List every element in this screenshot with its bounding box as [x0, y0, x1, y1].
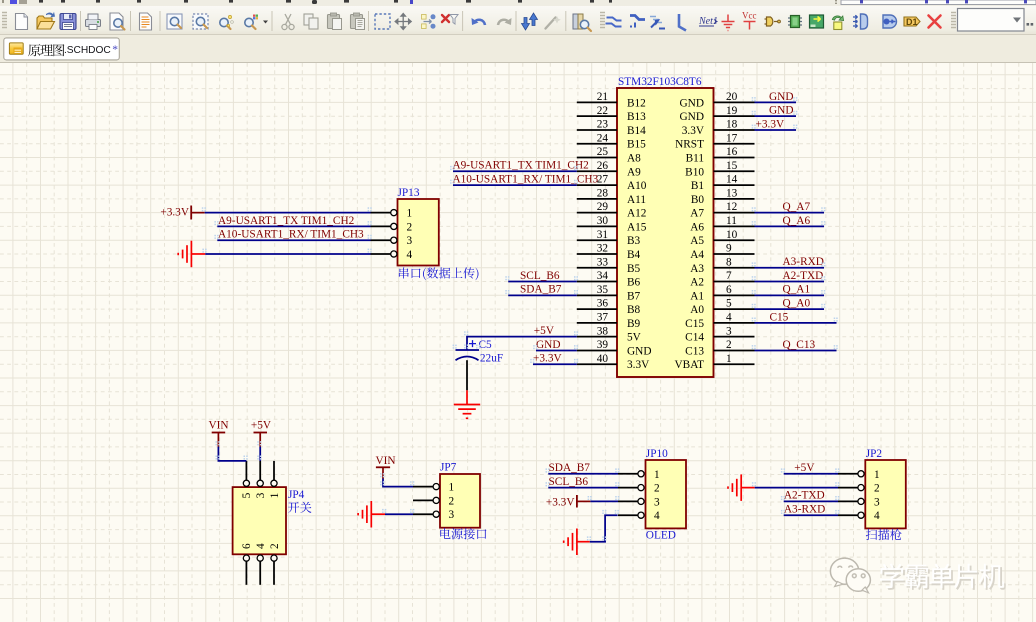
svg-text:22uF: 22uF — [480, 352, 503, 364]
U1 pin 21 stub — [577, 101, 617, 103]
svg-text:A2-TXD: A2-TXD — [783, 270, 824, 282]
svg-text:3.3V: 3.3V — [682, 125, 705, 137]
wire net Q_C13 — [755, 349, 837, 351]
svg-text:13: 13 — [726, 187, 738, 199]
JP4 caption 开关 — [288, 502, 312, 513]
gnd tool — [722, 15, 735, 31]
ground at JP2 pin2 — [728, 474, 741, 501]
svg-text:A9-USART1_TX TIM1_CH2: A9-USART1_TX TIM1_CH2 — [453, 160, 590, 172]
svg-text:5: 5 — [726, 298, 732, 310]
JP10 pin 4 stub — [618, 514, 638, 516]
zoom sparkle — [220, 15, 234, 29]
svg-text:JP2: JP2 — [866, 448, 883, 460]
svg-text:11: 11 — [726, 215, 737, 227]
ground below C5 — [454, 405, 480, 419]
svg-text:A11: A11 — [627, 194, 646, 206]
JP2 caption 扫描枪 — [866, 529, 902, 540]
power port VIN at JP7 — [376, 455, 396, 478]
svg-text:VIN: VIN — [376, 455, 396, 467]
JP7 pin 1 stub — [413, 486, 433, 488]
svg-text:+5V: +5V — [794, 462, 815, 474]
svg-text:31: 31 — [597, 229, 608, 241]
wire JP10 pin3 — [590, 500, 618, 502]
wire net +3.3V pin40 — [533, 363, 577, 365]
svg-text:B11: B11 — [686, 153, 704, 165]
JP13 pin 3 circle — [391, 237, 397, 243]
svg-text:B6: B6 — [627, 277, 641, 289]
svg-text:4: 4 — [874, 510, 880, 522]
JP4 pin 2 circle — [271, 555, 277, 561]
JP13 pin 3 stub — [371, 239, 391, 241]
JP2 pin 4 stub — [838, 514, 858, 516]
svg-text:1: 1 — [269, 493, 281, 499]
svg-text:+3.3V: +3.3V — [756, 118, 785, 130]
JP7 caption 电源接口 — [440, 528, 486, 539]
svg-text:20: 20 — [726, 91, 738, 103]
JP4 pin 1 circle — [271, 480, 277, 486]
svg-text:JP13: JP13 — [398, 187, 420, 199]
svg-text:A3-RXD: A3-RXD — [784, 503, 825, 515]
U1 pin 7 stub — [714, 281, 755, 283]
JP7 pin 2 circle — [433, 497, 439, 503]
MCU U1 STM32F103C8T6 — [617, 76, 714, 377]
power port +3.3V at JP13 — [160, 206, 204, 220]
wire JP13 pin4 — [205, 253, 370, 255]
JP7 pin 1 circle — [433, 484, 439, 490]
svg-text:Q_A6: Q_A6 — [783, 215, 811, 227]
svg-text:16: 16 — [726, 146, 738, 158]
svg-text:D1: D1 — [906, 17, 918, 27]
U1 pin 28 stub — [577, 198, 617, 200]
wire JP13 pin2 — [217, 225, 370, 227]
svg-text:4: 4 — [726, 311, 732, 323]
JP4 pin 3 circle — [257, 480, 263, 486]
U1 pin 26 stub — [577, 170, 617, 172]
svg-text:37: 37 — [597, 311, 609, 323]
JP13 pin 1 circle — [391, 210, 397, 216]
svg-text:3: 3 — [726, 325, 732, 337]
svg-text:A3: A3 — [690, 263, 704, 275]
U1 pin 35 stub — [577, 294, 617, 296]
JP4 pin 6 stub bottom — [245, 561, 247, 585]
svg-text:GND: GND — [680, 97, 704, 109]
U1 pin 5 stub — [714, 308, 755, 310]
zoom document — [167, 14, 182, 29]
JP13 pin 1 stub — [371, 212, 391, 214]
connector JP4 body — [233, 487, 286, 554]
svg-text:3: 3 — [874, 496, 880, 508]
bus entry — [650, 17, 665, 29]
U1 pin 14 stub — [714, 184, 755, 186]
svg-text:3: 3 — [654, 496, 660, 508]
U1 pin 15 stub — [714, 170, 755, 172]
wire net GND — [755, 101, 797, 103]
svg-text:2: 2 — [874, 483, 880, 495]
svg-text:A12: A12 — [627, 208, 647, 220]
svg-text:Q_A7: Q_A7 — [783, 201, 811, 213]
U1 pin 40 stub — [577, 363, 617, 365]
JP4 pin 2 stub bottom — [273, 561, 275, 585]
wire JP2 pin3 — [784, 500, 838, 502]
U1 pin 4 stub — [714, 322, 755, 324]
svg-text:B12: B12 — [627, 97, 646, 109]
reuse recycle — [832, 16, 843, 30]
svg-text:C15: C15 — [685, 318, 704, 330]
svg-text:26: 26 — [597, 160, 609, 172]
and gate part — [765, 17, 781, 26]
wire JP2 pin4 — [784, 514, 838, 516]
svg-text:21: 21 — [597, 91, 608, 103]
svg-text:B13: B13 — [627, 111, 646, 123]
svg-text:Vcc: Vcc — [742, 11, 757, 21]
wire net Q_A7 — [755, 212, 825, 214]
JP13 pin 2 stub — [371, 225, 391, 227]
svg-text:+3.3V: +3.3V — [160, 207, 189, 219]
power port +5V at JP4 — [251, 420, 272, 447]
wire VIN to JP7 pin1 — [383, 479, 413, 487]
U1 pin 6 stub — [714, 294, 755, 296]
svg-text:2: 2 — [407, 221, 413, 233]
svg-text:3: 3 — [449, 509, 455, 521]
svg-text:A10: A10 — [627, 180, 647, 192]
move cross — [395, 14, 411, 30]
connector JP10 body — [646, 460, 687, 528]
JP10 pin 3 stub — [618, 500, 638, 502]
svg-text:39: 39 — [597, 339, 609, 351]
port tool — [883, 15, 897, 28]
svg-text:8: 8 — [726, 256, 732, 268]
open folder — [37, 12, 55, 29]
svg-text:34: 34 — [597, 270, 609, 282]
zoom pixels — [245, 15, 258, 30]
svg-text:A4: A4 — [690, 249, 704, 261]
svg-text:3.3V: 3.3V — [627, 359, 650, 371]
U1 pin 30 stub — [577, 225, 617, 227]
svg-text:*: * — [112, 44, 118, 56]
svg-text:9: 9 — [726, 243, 732, 255]
U1 pin 22 stub — [577, 115, 617, 117]
svg-text:Net1: Net1 — [698, 16, 718, 27]
U1 pin 25 stub — [577, 157, 617, 159]
wire net Q_A1 — [755, 294, 825, 296]
svg-text:SCL_B6: SCL_B6 — [549, 476, 589, 488]
svg-text:Q_A1: Q_A1 — [783, 284, 811, 296]
svg-text:4: 4 — [654, 510, 660, 522]
JP13 pin 2 circle — [391, 223, 397, 229]
svg-text:C14: C14 — [685, 332, 704, 344]
U1 pin 12 stub — [714, 212, 755, 214]
JP2 pin 3 stub — [838, 500, 858, 502]
svg-text:A5: A5 — [690, 235, 704, 247]
U1 pin 20 stub — [714, 101, 755, 103]
JP7 pin 2 stub — [413, 499, 433, 501]
svg-text:4: 4 — [255, 543, 267, 549]
power port VIN at JP4 — [209, 420, 229, 447]
JP4 pin 1 stub top — [273, 461, 275, 480]
wire JP13 pin3 — [217, 239, 370, 241]
undo — [472, 18, 486, 25]
JP4 pin 5 stub top — [245, 461, 247, 480]
svg-text:GND: GND — [769, 91, 793, 103]
svg-text:B14: B14 — [627, 125, 646, 137]
svg-text:7: 7 — [726, 270, 732, 282]
toolbar icons group — [16, 9, 1034, 32]
wire net Q_A6 — [755, 225, 825, 227]
wire net +3.3V — [755, 129, 797, 131]
svg-text:A2-TXD: A2-TXD — [784, 490, 825, 502]
svg-text:JP10: JP10 — [646, 448, 668, 460]
svg-text:C5: C5 — [479, 339, 493, 351]
new document — [16, 14, 28, 30]
svg-text:22: 22 — [597, 105, 609, 117]
JP10 pin 2 circle — [638, 485, 644, 491]
wire net A2-TXD — [755, 281, 825, 283]
svg-text:GND: GND — [680, 111, 704, 123]
tab text 原理图 — [28, 44, 64, 56]
JP2 pin 3 circle — [858, 498, 864, 504]
svg-text:2: 2 — [269, 543, 281, 549]
svg-text:C13: C13 — [685, 345, 704, 357]
U1 pin 1 stub — [714, 363, 755, 365]
svg-text:OLED: OLED — [646, 529, 676, 541]
svg-text:10: 10 — [726, 229, 738, 241]
save floppy — [60, 14, 76, 30]
bus tool — [630, 16, 645, 28]
svg-text:35: 35 — [597, 284, 609, 296]
wire JP2 pin1 — [784, 473, 838, 475]
svg-text:SDA_B7: SDA_B7 — [549, 462, 591, 474]
library book search — [573, 14, 591, 31]
JP13 pin 4 circle — [391, 251, 397, 257]
U1 pin 9 stub — [714, 253, 755, 255]
JP13 caption 串口(数据上传) — [399, 267, 479, 280]
cross select dots — [422, 14, 436, 28]
JP4 pin 4 stub bottom — [259, 561, 261, 585]
U1 pin 19 stub — [714, 115, 755, 117]
svg-text:VIN: VIN — [209, 420, 229, 432]
delete x filter — [442, 15, 458, 25]
svg-text:+5V: +5V — [251, 420, 272, 432]
U1 pin 24 stub — [577, 143, 617, 145]
U1 pin 29 stub — [577, 212, 617, 214]
svg-text:STM32F103C8T6: STM32F103C8T6 — [618, 76, 702, 88]
svg-text:JP4: JP4 — [288, 489, 305, 501]
wire net C15 — [755, 322, 837, 324]
wire net +5V to C5 — [467, 337, 577, 350]
svg-text:GND: GND — [769, 105, 793, 117]
svg-text:38: 38 — [597, 325, 609, 337]
JP2 pin 4 circle — [858, 512, 864, 518]
svg-text:B3: B3 — [627, 235, 641, 247]
connector JP2 body — [865, 460, 906, 528]
JP7 pin 3 stub — [413, 513, 433, 515]
JP10 pin 1 stub — [618, 473, 638, 475]
wire net SCL_B6 — [508, 281, 577, 283]
up down arrows — [522, 13, 538, 30]
svg-text:4: 4 — [407, 249, 413, 261]
svg-text:A8: A8 — [627, 153, 641, 165]
sheet symbol — [810, 15, 824, 28]
svg-text:Q_A0: Q_A0 — [783, 298, 811, 310]
svg-text:3: 3 — [255, 492, 267, 498]
selection rect — [375, 14, 390, 29]
svg-text:A9: A9 — [627, 166, 641, 178]
svg-text:C15: C15 — [770, 311, 789, 323]
wand (disabled) — [546, 16, 561, 29]
svg-text:B0: B0 — [691, 194, 705, 206]
svg-text:25: 25 — [597, 146, 609, 158]
svg-text:A3-RXD: A3-RXD — [783, 256, 824, 268]
U1 pin 13 stub — [714, 198, 755, 200]
svg-text:A1: A1 — [690, 290, 704, 302]
svg-text:6: 6 — [241, 543, 253, 549]
wire net Q_A0 — [755, 308, 825, 310]
wire net SDA_B7 — [508, 294, 577, 296]
connector JP7 body — [440, 474, 480, 528]
svg-text:29: 29 — [597, 201, 609, 213]
wire snap markers — [202, 97, 840, 540]
U1 pin 17 stub — [714, 143, 755, 145]
svg-text:36: 36 — [597, 298, 609, 310]
JP2 pin 1 stub — [838, 473, 858, 475]
sheet entry — [853, 14, 868, 29]
U1 pin 2 stub — [714, 349, 755, 351]
wire JP2 pin2 — [755, 487, 838, 489]
svg-text:17: 17 — [726, 132, 738, 144]
svg-text:B4: B4 — [627, 249, 641, 261]
printer — [86, 14, 101, 30]
svg-text:27: 27 — [597, 174, 609, 186]
net label — [698, 16, 718, 27]
svg-text:VBAT: VBAT — [675, 359, 705, 371]
svg-text:14: 14 — [726, 174, 738, 186]
svg-text:B9: B9 — [627, 318, 641, 330]
svg-text:33: 33 — [597, 256, 609, 268]
red X delete — [929, 16, 941, 28]
vcc tool — [742, 11, 757, 30]
JP7 pin 3 circle — [433, 511, 439, 517]
JP2 pin 2 stub — [838, 487, 858, 489]
svg-text:12: 12 — [726, 201, 738, 213]
svg-text:SDA_B7: SDA_B7 — [520, 284, 562, 296]
JP4 pin 3 stub top — [259, 461, 261, 480]
svg-text:1: 1 — [654, 469, 660, 481]
svg-text:.SCHDOC: .SCHDOC — [64, 45, 111, 56]
svg-text:GND: GND — [627, 345, 651, 357]
U1 pin 16 stub — [714, 157, 755, 159]
connector JP13 body — [398, 199, 439, 266]
ic part — [788, 16, 802, 28]
wire net GND pin39 — [536, 349, 577, 351]
watermark wechat logo — [830, 558, 870, 593]
svg-text:SCL_B6: SCL_B6 — [520, 270, 560, 282]
svg-text:NRST: NRST — [675, 139, 704, 151]
cut scissors (disabled) — [282, 14, 294, 30]
wire net A9-USART1_TX — [453, 170, 577, 172]
wire JP7 pin3 — [385, 513, 413, 515]
combo box — [958, 9, 1025, 32]
JP2 pin 2 circle — [858, 485, 864, 491]
U1 pin 3 stub — [714, 336, 755, 338]
svg-text:2: 2 — [449, 495, 455, 507]
wire C5 to ground — [466, 360, 468, 390]
svg-text:B5: B5 — [627, 263, 641, 275]
U1 pin 10 stub — [714, 239, 755, 241]
wire net A3-RXD — [755, 267, 825, 269]
svg-text:A0: A0 — [690, 304, 704, 316]
U1 pin 36 stub — [577, 308, 617, 310]
U1 pin 27 stub — [577, 184, 617, 186]
JP10 pin 1 circle — [638, 471, 644, 477]
svg-text:30: 30 — [597, 215, 609, 227]
svg-text:5: 5 — [241, 492, 253, 498]
svg-text:5V: 5V — [627, 332, 642, 344]
print preview — [110, 13, 125, 30]
U1 pin 32 stub — [577, 253, 617, 255]
JP4 pin 4 circle — [257, 555, 263, 561]
U1 pin 38 stub — [577, 336, 617, 338]
svg-text:15: 15 — [726, 160, 738, 172]
svg-text:18: 18 — [726, 119, 738, 131]
svg-text:A10-USART1_RX/ TIM1_CH3: A10-USART1_RX/ TIM1_CH3 — [218, 229, 364, 241]
U1 pin 31 stub — [577, 239, 617, 241]
JP10 pin 4 circle — [638, 512, 644, 518]
svg-text:A7: A7 — [690, 208, 704, 220]
svg-text:6: 6 — [726, 284, 732, 296]
svg-text:A9-USART1_TX TIM1_CH2: A9-USART1_TX TIM1_CH2 — [218, 215, 355, 227]
wire +3.3V to JP13 pin1 — [205, 212, 371, 214]
svg-text:1: 1 — [874, 469, 880, 481]
capacitor C5 22uF — [456, 339, 504, 364]
U1 pin 37 stub — [577, 322, 617, 324]
svg-text:B1: B1 — [691, 180, 704, 192]
D1 annotate — [904, 17, 920, 27]
svg-text:GND: GND — [536, 339, 560, 351]
svg-text:28: 28 — [597, 187, 609, 199]
svg-text:B7: B7 — [627, 290, 641, 302]
svg-text:2: 2 — [726, 339, 732, 351]
svg-text:A2: A2 — [690, 277, 704, 289]
wire net GND — [755, 115, 797, 117]
JP4 pin 5 circle — [243, 480, 249, 486]
svg-text:A15: A15 — [627, 221, 647, 233]
U1 pin 11 stub — [714, 225, 755, 227]
wire net A10-USART1_RX — [453, 184, 577, 186]
U1 pin 34 stub — [577, 281, 617, 283]
svg-text:1: 1 — [407, 208, 413, 220]
wire JP10 pin2 — [548, 487, 618, 489]
wire tool — [606, 18, 622, 27]
svg-text:1: 1 — [726, 353, 732, 365]
power port +3.3V at JP10 — [546, 495, 591, 509]
wire JP10 pin1 — [548, 473, 618, 475]
JP13 pin 4 stub — [371, 253, 391, 255]
paste special (disabled) — [351, 13, 365, 30]
ground at JP7 pin3 — [358, 501, 371, 528]
watermark text 学霸单片机 — [882, 565, 1006, 590]
svg-text:A6: A6 — [690, 221, 704, 233]
JP10 pin 2 stub — [618, 487, 638, 489]
svg-text:1: 1 — [449, 482, 455, 494]
line tool — [679, 14, 686, 31]
svg-text:24: 24 — [597, 132, 609, 144]
U1 pin 39 stub — [577, 349, 617, 351]
tab bar — [0, 35, 1036, 63]
zoom area dashed — [193, 14, 208, 29]
svg-text:19: 19 — [726, 105, 738, 117]
U1 pin 8 stub — [714, 267, 755, 269]
svg-text:40: 40 — [597, 353, 609, 365]
